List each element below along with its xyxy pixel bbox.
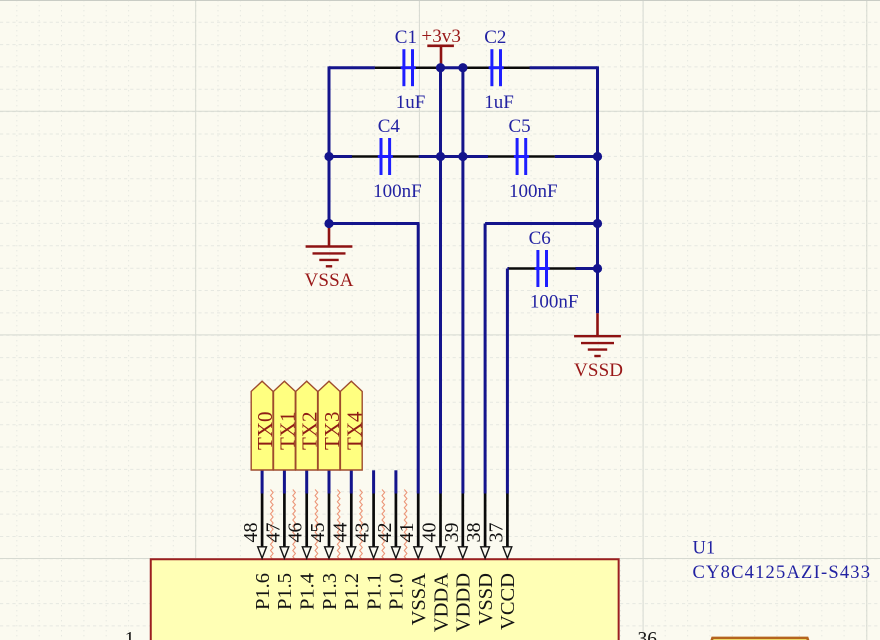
svg-text:P1.2: P1.2 (341, 573, 363, 610)
wire vertical to pin 38 VSSD (484, 224, 487, 494)
svg-text:46: 46 (285, 523, 307, 543)
svg-text:100nF: 100nF (509, 181, 558, 202)
svg-text:P1.4: P1.4 (297, 573, 319, 610)
svg-text:100nF: 100nF (530, 292, 579, 313)
svg-text:VDDD: VDDD (453, 573, 475, 632)
wire row2 left segment (329, 155, 352, 158)
svg-text:VSSA: VSSA (408, 573, 430, 626)
svg-text:1uF: 1uF (396, 92, 426, 113)
svg-text:48: 48 (240, 523, 262, 543)
compile-error squiggle at pin 44 (360, 490, 363, 563)
port TX2 (296, 381, 322, 470)
svg-text:VDDA: VDDA (430, 573, 452, 632)
wire +3v3 vertical to pin 40 VDDA (439, 68, 442, 494)
junction top row right (458, 63, 467, 72)
junction VSSD node (593, 219, 602, 228)
pin 37 (VCCD) of U1 (503, 494, 512, 559)
svg-text:U1: U1 (693, 539, 716, 559)
compile-error squiggle at pin 47 (293, 490, 296, 563)
svg-text:P1.3: P1.3 (319, 573, 341, 610)
junction row2 right (593, 152, 602, 161)
wire top row middle segment (441, 66, 463, 69)
pin 46 (P1.4) of U1 (302, 494, 311, 559)
ground symbol VSSD (574, 313, 621, 356)
port (bottom right, partially visible) (709, 638, 812, 640)
svg-text:C1: C1 (395, 27, 417, 48)
svg-text:47: 47 (262, 523, 284, 543)
svg-text:CY8C4125AZI-S433: CY8C4125AZI-S433 (693, 563, 871, 583)
pin 39 (VDDD) of U1 (458, 494, 467, 559)
wire C6 right segment (576, 267, 598, 270)
pin 41 (VSSA) of U1 (414, 494, 423, 559)
wire stub from port TX1 to pin 47 (283, 470, 286, 494)
svg-text:43: 43 (352, 523, 374, 543)
wire stub pin 42 P1.0 (394, 470, 397, 493)
pin 48 (P1.6) of U1 (258, 494, 267, 559)
wire VSSA node horizontal (329, 222, 420, 225)
svg-text:37: 37 (485, 523, 507, 543)
junction C6 right (593, 264, 602, 273)
svg-text:VCCD: VCCD (497, 573, 519, 630)
pin 42 (P1.0) of U1 (392, 494, 401, 559)
wire right vertical (C2/C5 right to VSSD ground) (596, 66, 599, 313)
compile-error squiggle at pin 43 (382, 490, 385, 563)
svg-text:1uF: 1uF (484, 92, 514, 113)
port TX4 (340, 381, 366, 470)
svg-text:44: 44 (329, 523, 351, 543)
capacitor C2 (463, 49, 530, 86)
wire VSSD node horizontal (485, 222, 597, 225)
svg-text:P1.6: P1.6 (252, 573, 274, 610)
op-amp/IC body U1 (151, 559, 619, 640)
svg-text:41: 41 (396, 523, 418, 543)
wire vertical to pin 41 VSSA (417, 224, 420, 494)
svg-text:P1.1: P1.1 (363, 573, 385, 610)
pin 45 (P1.3) of U1 (325, 494, 334, 559)
wire stub from port TX0 to pin 48 (261, 470, 264, 494)
junction row2 mid-left (436, 152, 445, 161)
pin 44 (P1.2) of U1 (347, 494, 356, 559)
junction node +3v3 / C1-C2 (436, 63, 445, 72)
svg-text:1: 1 (125, 629, 135, 640)
svg-text:C6: C6 (529, 228, 551, 249)
svg-text:VSSA: VSSA (305, 270, 354, 291)
wire stub from port TX2 to pin 46 (305, 470, 308, 494)
wire top row right segment (530, 66, 598, 69)
wire C6 left stub (507, 267, 509, 270)
svg-text:100nF: 100nF (373, 181, 422, 202)
wire left vertical (C1/C4 left to VSSA node) (328, 66, 331, 223)
svg-text:+3v3: +3v3 (421, 26, 461, 47)
compile-error squiggle at pin 46 (315, 490, 318, 563)
pin 38 (VSSD) of U1 (481, 494, 490, 559)
junction VSSA node (324, 219, 333, 228)
capacitor C6 (509, 250, 576, 287)
wire stub pin 43 P1.1 (372, 470, 375, 493)
capacitor C1 (375, 49, 442, 86)
svg-text:C2: C2 (484, 27, 506, 48)
wire stub from port TX3 to pin 45 (328, 470, 331, 494)
svg-text:42: 42 (374, 523, 396, 543)
port TX0 (251, 381, 277, 470)
pin 40 (VDDA) of U1 (436, 494, 445, 559)
ground symbol VSSA (306, 224, 353, 267)
svg-text:TX4: TX4 (342, 411, 366, 450)
svg-text:C4: C4 (378, 116, 401, 137)
pin 47 (P1.5) of U1 (280, 494, 289, 559)
compile-error squiggle at pin 48 (271, 490, 274, 563)
svg-text:C5: C5 (509, 116, 531, 137)
capacitor C5 (488, 138, 555, 175)
compile-error squiggle at pin 45 (337, 490, 340, 563)
svg-text:P1.0: P1.0 (386, 573, 408, 610)
wire vertical to pin 39 VDDD (461, 68, 464, 494)
wire top row left segment (329, 66, 375, 69)
port TX1 (274, 381, 300, 470)
port TX3 (318, 381, 344, 470)
junction row2 left (324, 152, 333, 161)
capacitor C4 (352, 138, 419, 175)
svg-text:36: 36 (638, 629, 658, 640)
pin 43 (P1.1) of U1 (369, 494, 378, 559)
svg-text:38: 38 (463, 523, 485, 543)
junction row2 mid-right (458, 152, 467, 161)
power symbol +3v3 (427, 46, 454, 68)
wire stub from port TX4 to pin 44 (350, 470, 353, 494)
svg-text:P1.5: P1.5 (274, 573, 296, 610)
svg-text:40: 40 (419, 523, 441, 543)
wire row2 middle segment (419, 155, 489, 158)
compile-error squiggle at pin 42 (404, 490, 407, 563)
svg-text:VSSD: VSSD (574, 360, 623, 381)
svg-text:VSSD: VSSD (475, 573, 497, 625)
wire row2 right segment (555, 155, 598, 158)
wire vertical to pin 37 VCCD (506, 269, 509, 494)
svg-text:45: 45 (307, 523, 329, 543)
svg-text:39: 39 (441, 523, 463, 543)
